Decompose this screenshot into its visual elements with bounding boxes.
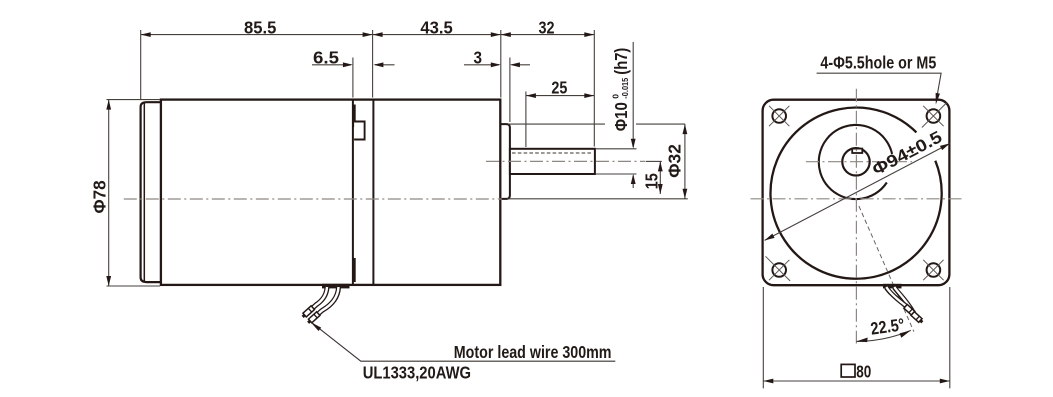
- shaft horizontal centerline: [806, 161, 912, 163]
- motor body + gearbox outline: [161, 100, 500, 285]
- gearbox circle (phi78) with gap for dim text: [770, 108, 941, 279]
- leader arrowhead: [311, 322, 321, 331]
- flange square: [763, 100, 950, 286]
- svg-text:-0.015: -0.015: [620, 77, 630, 98]
- motor rear cap: [141, 102, 161, 282]
- 25 ext left: [525, 92, 527, 148]
- ext line shaft-end: [593, 30, 595, 147]
- motor centerline: [124, 198, 502, 200]
- svg-text:43.5: 43.5: [420, 17, 453, 37]
- motor lead wires: [312, 288, 339, 315]
- shaft bottom ext: [596, 173, 637, 175]
- phi10 dim line lower: [632, 176, 634, 189]
- wire grommet: [322, 284, 350, 289]
- front wire 1: [886, 288, 905, 306]
- front wire terminal 2: [911, 312, 924, 324]
- ext top: [107, 99, 161, 101]
- output shaft: [510, 149, 595, 174]
- dim text Phi10 tolerance (h7) vertical: [611, 48, 631, 132]
- phi10 dim line upper: [632, 42, 634, 147]
- front wire 2: [894, 288, 913, 313]
- arrowheads sq80: [763, 379, 950, 384]
- ext line gearbox-right: [500, 30, 502, 98]
- ext bottom: [107, 285, 161, 287]
- output boss: [500, 124, 510, 199]
- svg-text:UL1333,20AWG: UL1333,20AWG: [363, 363, 471, 383]
- svg-text:15: 15: [641, 173, 661, 189]
- lead wires white core: [312, 287, 339, 314]
- svg-text:80: 80: [856, 361, 871, 381]
- 25 dim line: [526, 95, 594, 97]
- joint clamp upper: [353, 105, 356, 128]
- joint clamp lower: [353, 258, 356, 282]
- shaft circle: [842, 148, 869, 175]
- front wire terminal 1: [904, 304, 917, 316]
- svg-text:(h7): (h7): [611, 48, 631, 75]
- joint tab: [354, 122, 365, 140]
- arrowheads top dims: [141, 32, 595, 98]
- svg-text:Motor lead wire 300mm: Motor lead wire 300mm: [454, 342, 612, 362]
- 22.5 degree construction line: [859, 206, 914, 332]
- svg-text:3: 3: [474, 48, 483, 68]
- phi94 dim line: [765, 143, 950, 240]
- front wire 2 white core: [894, 287, 913, 313]
- svg-text:32: 32: [539, 17, 555, 37]
- svg-text:85.5: 85.5: [244, 17, 277, 37]
- 6.5 dim lines: [312, 64, 351, 66]
- shaft top ext: [596, 148, 637, 150]
- motor/gearbox joint line 1: [352, 100, 354, 285]
- shaft centerline: [486, 160, 646, 162]
- shaft flat (hidden line): [512, 152, 593, 154]
- svg-text:4-Φ5.5hole or M5: 4-Φ5.5hole or M5: [820, 53, 936, 73]
- 22.5 degree arc: [856, 330, 910, 341]
- arrowheads Phi78: [106, 100, 111, 286]
- leader to lead wire note: [313, 323, 616, 361]
- front wires grommet: [883, 284, 902, 289]
- 3 dim lines: [464, 64, 499, 66]
- ext motor joint (6.5 left): [352, 58, 354, 98]
- front wire 1 white core: [886, 287, 905, 306]
- mounting hole top-left: [769, 106, 789, 126]
- mounting hole bottom-right: [923, 260, 943, 280]
- mounting hole top-right: [922, 103, 947, 128]
- mounting hole bottom-left: [766, 256, 791, 281]
- svg-text:25: 25: [551, 77, 567, 97]
- svg-text:Φ78: Φ78: [89, 180, 109, 213]
- boss bottom ext: [507, 198, 688, 200]
- shaft keyway: [852, 149, 862, 153]
- wire terminal 1: [301, 306, 315, 319]
- svg-text:Φ10: Φ10: [611, 102, 631, 131]
- sq80 ext left: [762, 287, 764, 388]
- motor/gearbox joint line 2: [372, 100, 374, 285]
- svg-text:Φ32: Φ32: [664, 144, 684, 178]
- ext line gearbox-left: [372, 30, 374, 98]
- bearing boss circle (phi32) with gap: [819, 125, 892, 199]
- svg-text:6.5: 6.5: [313, 48, 339, 68]
- vertical centerline: [855, 89, 857, 344]
- 15 dim line: [659, 161, 661, 194]
- motor rear cap seam: [143, 103, 145, 282]
- boss top ext: [508, 123, 605, 125]
- arrowheads shaft dims: [631, 124, 688, 199]
- 15 tick: [646, 160, 662, 162]
- dim line 85.5/43.5/32: [141, 34, 595, 36]
- square-80 dimension: [763, 287, 950, 388]
- wire terminal 2: [306, 312, 320, 325]
- ext boss face (3 right): [509, 58, 511, 123]
- dim line: [108, 100, 110, 286]
- phi32 dim line: [684, 124, 686, 199]
- dim text square 80: [841, 364, 855, 377]
- horizontal centerline: [751, 198, 962, 200]
- ext line cap-left: [140, 30, 142, 100]
